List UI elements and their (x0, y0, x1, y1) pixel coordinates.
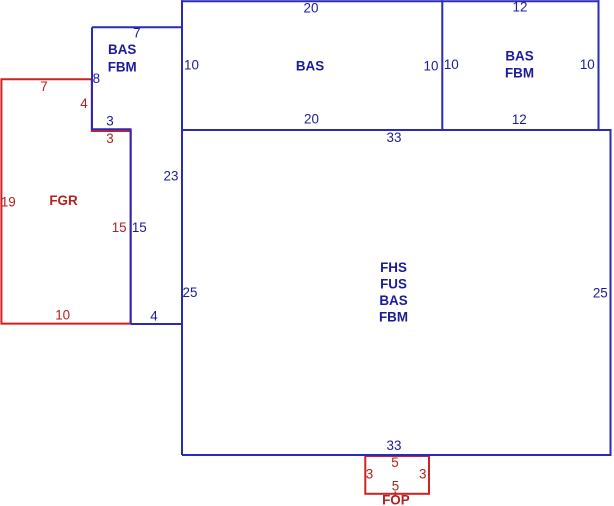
FGR garage outline (red polygon) (1, 79, 130, 323)
svg-text:20: 20 (304, 112, 319, 127)
FOP bottom tick mark (394, 492, 396, 497)
svg-text:BAS: BAS (296, 59, 324, 74)
svg-text:10: 10 (55, 307, 70, 322)
svg-text:12: 12 (512, 112, 527, 127)
wall: bottom edge of big lower rect (182, 454, 612, 456)
svg-text:5: 5 (392, 478, 399, 493)
svg-text:10: 10 (184, 58, 199, 73)
wall: divider between BAS and BAS FBM (441, 0, 443, 130)
svg-text:FOP: FOP (382, 493, 410, 506)
svg-text:3: 3 (419, 467, 426, 482)
wall: middle horizontal y=130 (181, 129, 612, 131)
svg-text:33: 33 (387, 438, 402, 453)
svg-text:15: 15 (112, 220, 127, 235)
svg-text:7: 7 (40, 79, 47, 94)
svg-text:33: 33 (387, 130, 402, 145)
svg-text:8: 8 (93, 71, 100, 86)
svg-text:BAS: BAS (108, 42, 136, 57)
wall: vertical x=131 (15) (130, 129, 132, 324)
svg-text:FBM: FBM (505, 66, 534, 81)
wall: top edge of upper rectangles (181, 0, 600, 2)
svg-text:BAS: BAS (505, 49, 533, 64)
svg-text:25: 25 (593, 286, 608, 301)
svg-text:FUS: FUS (380, 276, 407, 291)
FOP porch outline (red rectangle) (365, 456, 429, 494)
wall: left edge of small BAS FBM shape (91, 27, 93, 130)
wall: main left vertical x=182 (181, 0, 183, 455)
svg-text:4: 4 (80, 96, 88, 111)
wall: right edge of big lower rect (610, 130, 612, 456)
svg-text:FHS: FHS (380, 260, 407, 275)
wall: right edge of top BAS FBM rect (598, 0, 600, 130)
svg-text:5: 5 (391, 455, 398, 470)
svg-text:10: 10 (444, 57, 459, 72)
svg-text:20: 20 (304, 0, 319, 15)
svg-text:7: 7 (133, 26, 140, 41)
svg-text:10: 10 (424, 59, 439, 74)
svg-text:15: 15 (132, 220, 147, 235)
svg-text:4: 4 (150, 308, 158, 323)
svg-text:12: 12 (513, 0, 528, 15)
svg-text:3: 3 (106, 113, 113, 128)
svg-text:FGR: FGR (49, 193, 78, 208)
svg-text:FBM: FBM (379, 309, 408, 324)
wall: horizontal jog y=324 (4) (131, 323, 182, 325)
svg-text:3: 3 (366, 467, 373, 482)
svg-text:25: 25 (183, 285, 198, 300)
wall: short bottom edge (3) of small BAS FBM shape (91, 128, 132, 130)
svg-text:10: 10 (580, 57, 595, 72)
svg-text:23: 23 (164, 169, 179, 184)
wall: top edge of small BAS FBM shape (92, 26, 182, 28)
svg-text:FBM: FBM (108, 59, 137, 74)
svg-text:19: 19 (1, 194, 16, 209)
svg-text:3: 3 (106, 131, 113, 146)
svg-text:BAS: BAS (379, 293, 407, 308)
